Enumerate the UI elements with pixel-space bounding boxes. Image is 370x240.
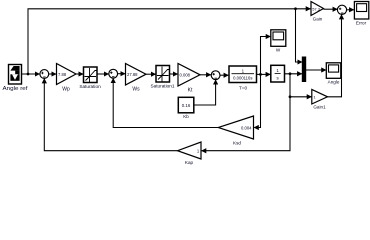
wire ref down to mux — [296, 9, 303, 62]
wire Kb to sum3 — [194, 80, 216, 105]
wire Saturation to sum2 — [97, 73, 109, 75]
sum junction sum3 — [211, 71, 220, 80]
gain Wp — [57, 64, 77, 93]
source block Angle ref — [3, 65, 29, 93]
svg-text:Gain: Gain — [313, 17, 323, 22]
wire Kap to sum1 — [44, 79, 177, 151]
wire Gain to error sum — [324, 8, 338, 10]
wire angle down / to Gain1 — [290, 74, 311, 97]
node speed junction — [259, 73, 262, 76]
scope Error — [354, 2, 368, 26]
sum junction sum2 — [109, 69, 118, 78]
svg-text:57.3: 57.3 — [312, 7, 321, 12]
svg-text:Angle ref: Angle ref — [3, 86, 29, 92]
sum junction sum1 — [40, 70, 49, 79]
constant block 0.16 — [178, 97, 194, 119]
wire speed down to Ksd — [254, 74, 260, 127]
wire Kt to sum3 — [200, 74, 211, 76]
svg-text:0.000116s: 0.000116s — [233, 76, 252, 81]
svg-text:Angle: Angle — [328, 80, 340, 85]
wire Ws to Saturation1 — [146, 73, 156, 75]
svg-text:Kt: Kt — [188, 88, 193, 94]
svg-text:Error: Error — [356, 21, 367, 26]
wire Ksd to sum2 — [113, 78, 218, 127]
wire angle down to Kap — [202, 97, 290, 151]
wire sum3 to transfer fcn — [220, 74, 229, 76]
scope W — [271, 30, 286, 53]
wire integrator to mux — [285, 73, 302, 75]
wire Gain1 up to error sum — [328, 15, 342, 97]
node angle junction — [289, 72, 292, 75]
saturation block Saturation — [79, 67, 101, 89]
gain Gain1 — [312, 90, 328, 110]
wire reference top line — [28, 9, 310, 74]
gain Ws — [126, 64, 147, 93]
svg-text:7.88: 7.88 — [58, 72, 67, 77]
transfer function block 1/(0.000116s) — [229, 66, 257, 91]
svg-text:Wp: Wp — [62, 87, 70, 93]
gain Gain (top) — [311, 2, 324, 22]
svg-text:27.88: 27.88 — [127, 72, 138, 77]
svg-text:Ksd: Ksd — [233, 141, 241, 146]
svg-text:Kb: Kb — [183, 114, 189, 119]
wire Saturation1 to Kt — [170, 73, 178, 75]
node branch junction — [27, 73, 30, 76]
gain Ksd 0.004 (left pointing) — [218, 116, 253, 146]
node gain1 branch junction — [289, 95, 292, 98]
integrator block 1/s — [271, 65, 285, 82]
svg-text:0.008: 0.008 — [180, 73, 191, 78]
wire mux to Angle scope — [306, 69, 326, 71]
svg-text:T=0: T=0 — [239, 86, 247, 91]
wire source to sum1 — [22, 73, 40, 75]
wire speed up to scope W — [261, 37, 271, 75]
svg-text:Kap: Kap — [185, 160, 194, 165]
scope Angle — [326, 63, 341, 85]
wire Wp to Saturation — [76, 73, 83, 75]
wire sum2 to Ws — [117, 73, 125, 75]
sum junction error sum — [337, 5, 346, 14]
svg-text:0.004: 0.004 — [241, 126, 252, 131]
gain Kap (left pointing) — [178, 142, 202, 165]
svg-text:W: W — [276, 48, 281, 53]
svg-text:Ws: Ws — [132, 87, 140, 93]
wire TF to integrator — [257, 73, 271, 75]
gain Kt 0.008 — [178, 64, 200, 94]
node top ref junction — [294, 7, 297, 10]
saturation block Saturation1 — [151, 66, 175, 89]
svg-text:Gain1: Gain1 — [313, 105, 326, 110]
svg-text:0.16: 0.16 — [182, 103, 191, 108]
wire error sum to scope Error — [346, 9, 354, 11]
svg-text:Saturation: Saturation — [79, 84, 101, 89]
mux — [302, 57, 305, 82]
svg-text:Saturation1: Saturation1 — [151, 84, 175, 89]
wire sum1 to Wp — [49, 73, 57, 75]
